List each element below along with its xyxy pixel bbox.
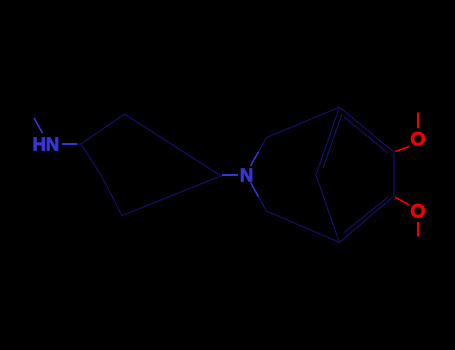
svg-text:O: O (410, 201, 425, 223)
svg-text:H: H (33, 133, 46, 154)
svg-text:N: N (240, 164, 253, 185)
svg-text:O: O (410, 129, 425, 151)
svg-text:N: N (46, 133, 59, 154)
